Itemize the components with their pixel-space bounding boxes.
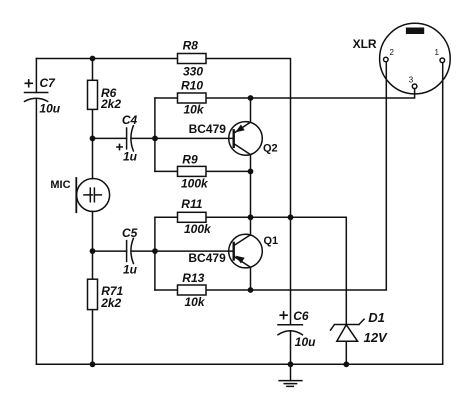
svg-text:D1: D1 (368, 310, 385, 325)
svg-text:100k: 100k (181, 176, 209, 190)
svg-text:2: 2 (390, 48, 395, 57)
svg-text:Q1: Q1 (264, 235, 279, 247)
svg-text:2k2: 2k2 (100, 97, 121, 111)
svg-text:R10: R10 (181, 79, 203, 93)
svg-text:1u: 1u (123, 149, 138, 163)
svg-text:MIC: MIC (50, 179, 70, 191)
svg-text:R11: R11 (181, 197, 202, 211)
svg-text:BC479: BC479 (189, 122, 227, 136)
svg-text:C4: C4 (122, 113, 138, 127)
svg-text:12V: 12V (364, 330, 388, 345)
svg-text:10u: 10u (295, 335, 316, 349)
svg-text:R8: R8 (183, 38, 199, 52)
svg-text:10k: 10k (184, 103, 205, 117)
svg-text:R13: R13 (182, 271, 204, 285)
svg-text:3: 3 (409, 76, 414, 85)
svg-text:C7: C7 (40, 76, 57, 90)
svg-text:BC479: BC479 (188, 251, 226, 265)
svg-text:10u: 10u (39, 101, 60, 115)
svg-text:10k: 10k (185, 295, 206, 309)
svg-text:1: 1 (435, 48, 440, 57)
svg-text:Q2: Q2 (263, 143, 278, 155)
svg-text:R9: R9 (182, 153, 198, 167)
svg-text:330: 330 (183, 65, 203, 79)
svg-text:C6: C6 (293, 309, 309, 323)
svg-text:C5: C5 (122, 226, 138, 240)
svg-text:1u: 1u (123, 263, 138, 277)
svg-text:XLR: XLR (353, 37, 377, 51)
svg-text:100k: 100k (184, 222, 212, 236)
svg-text:2k2: 2k2 (100, 296, 121, 310)
